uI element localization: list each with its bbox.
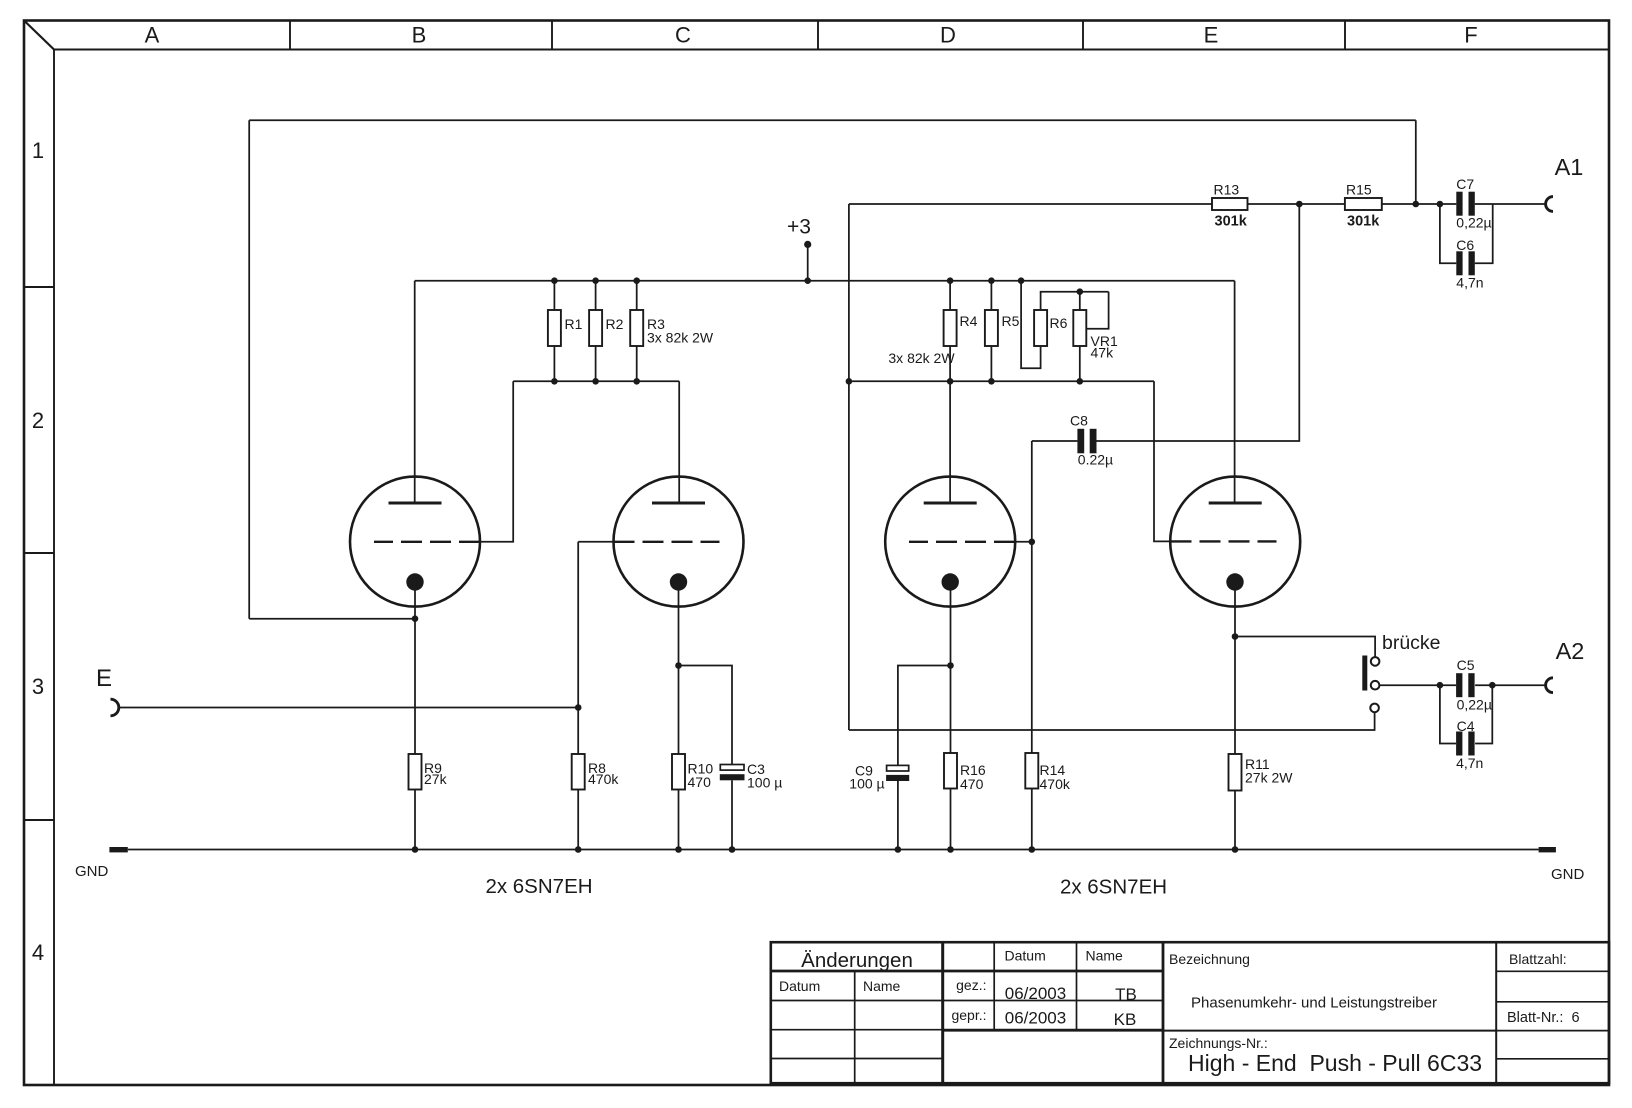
svg-text:Datum: Datum (779, 978, 820, 994)
junction C5 left (1437, 682, 1444, 689)
resistor R1 (548, 310, 561, 346)
wire right coupling rail (849, 380, 1154, 382)
wire R6 top link (1041, 292, 1109, 310)
svg-text:brücke: brücke (1382, 632, 1441, 654)
svg-text:R6: R6 (1050, 315, 1068, 331)
wire R3 leads (636, 281, 638, 382)
junction R6 branch top (1018, 277, 1025, 284)
potentiometer VR1 (1073, 310, 1086, 346)
svg-text:A1: A1 (1555, 154, 1584, 180)
svg-text:27k 2W: 27k 2W (1245, 770, 1293, 786)
junction ground R8 (575, 846, 582, 853)
svg-text:0,22µ: 0,22µ (1457, 697, 1492, 713)
wire VR1 bottom lead (1079, 346, 1081, 381)
svg-text:C5: C5 (1457, 657, 1475, 673)
wire R16 bottom lead (950, 789, 952, 850)
svg-text:100 µ: 100 µ (747, 775, 782, 791)
svg-text:06/2003: 06/2003 (1005, 984, 1066, 1003)
svg-text:High - End Push - Pull 6C33: High - End Push - Pull 6C33 (1188, 1050, 1482, 1076)
terminal E (input) (111, 699, 119, 716)
wire left coupling rail (513, 380, 679, 382)
svg-text:R13: R13 (1214, 182, 1240, 198)
svg-text:R2: R2 (606, 316, 624, 332)
jumper "bruecke" contacts (1370, 657, 1379, 712)
junction ground R9 (412, 846, 419, 853)
wire A1 output line (849, 203, 1546, 205)
junction E input / R8 (575, 704, 582, 711)
svg-text:Blattzahl:: Blattzahl: (1509, 951, 1567, 967)
junction ground R14 (1029, 846, 1036, 853)
wire feedback top horizontal (249, 119, 1416, 121)
svg-text:C6: C6 (1456, 237, 1474, 253)
wire T4 cathode lead (1234, 582, 1236, 754)
resistor R9 (409, 754, 422, 790)
svg-text:100 µ: 100 µ (849, 776, 884, 792)
svg-text:GND: GND (75, 863, 109, 880)
resistor R11 (1229, 754, 1242, 791)
junction C6 tap (1437, 201, 1444, 208)
wire T2 grid node vertical (577, 542, 579, 754)
wire R9 bottom lead (414, 790, 416, 850)
svg-text:301k: 301k (1347, 214, 1380, 230)
svg-text:Bezeichnung: Bezeichnung (1169, 951, 1250, 967)
svg-text:B: B (412, 23, 427, 48)
svg-text:Phasenumkehr- und Leistungstre: Phasenumkehr- und Leistungstreiber (1191, 995, 1437, 1012)
resistor R10 (672, 754, 685, 790)
svg-text:2x 6SN7EH: 2x 6SN7EH (1060, 876, 1167, 899)
junction R2 top (592, 277, 599, 284)
node +3 terminal (804, 241, 811, 248)
svg-text:Name: Name (1086, 948, 1124, 964)
wire C9 bottom lead (897, 781, 899, 850)
junction R1 top (551, 277, 558, 284)
junction T4 cathode (1232, 633, 1239, 640)
svg-text:470k: 470k (588, 771, 619, 787)
resistor R5 (985, 310, 998, 346)
svg-text:C: C (675, 23, 691, 48)
wire D-column riser (848, 204, 850, 730)
capacitor C8 plates (1077, 429, 1084, 454)
wire C5 to A2 terminal (1475, 684, 1545, 686)
svg-text:3x 82k 2W: 3x 82k 2W (888, 350, 955, 366)
svg-text:4,7n: 4,7n (1456, 275, 1483, 291)
svg-text:0.22µ: 0.22µ (1078, 452, 1113, 468)
svg-text:3x 82k 2W: 3x 82k 2W (647, 330, 714, 346)
svg-text:C8: C8 (1070, 413, 1088, 429)
resistor R4 (944, 310, 957, 346)
wire T4 cathode to bridge top contact (1235, 637, 1375, 658)
junction ground R10 (675, 846, 682, 853)
resistor R3 (630, 310, 643, 346)
wire feedback left vertical (248, 120, 250, 619)
capacitor C6 plates (1456, 251, 1462, 275)
junction feedback tap (1413, 201, 1420, 208)
wire T2 grid lead (578, 541, 613, 543)
svg-text:4,7n: 4,7n (1456, 755, 1483, 771)
resistor R16 (944, 753, 957, 789)
resistor R13 (1212, 198, 1248, 210)
svg-text:06/2003: 06/2003 (1005, 1009, 1066, 1028)
wire R6 bottom link (1021, 281, 1041, 369)
wire R11 bottom lead (1234, 791, 1236, 850)
svg-text:470: 470 (960, 776, 984, 792)
wire C3 bottom lead (731, 780, 733, 849)
svg-text:A: A (145, 23, 160, 48)
wire T3 plate lead (949, 381, 951, 503)
svg-text:Name: Name (863, 978, 901, 994)
junction ground C3 (729, 846, 736, 853)
junction T3 cathode (947, 662, 954, 669)
junction ground R11 (1232, 846, 1239, 853)
wire C8 left lead (1032, 440, 1078, 442)
junction R6/VR1 top node (1077, 288, 1084, 295)
wire T1 grid drop (480, 381, 513, 542)
junction +3 rail (804, 277, 811, 284)
wire bridge bottom contact to plate node (849, 712, 1375, 730)
triode V3 (6SN7EH section 1) (885, 477, 1015, 607)
capacitor C7 plates (1456, 192, 1462, 216)
wire R2 leads (595, 281, 597, 382)
junction ground C9 (895, 846, 902, 853)
wire VR1 wiper loop (1087, 292, 1109, 329)
svg-text:F: F (1464, 23, 1477, 48)
wire T3 cathode lead (950, 582, 952, 754)
wire bridge middle contact to C5 (1379, 684, 1456, 686)
svg-text:+3: +3 (787, 216, 811, 239)
jumper "bruecke" bar (1362, 656, 1367, 691)
wire feedback to T1 cathode (249, 618, 415, 620)
junction R4 top (947, 277, 954, 284)
wire R1 leads (553, 281, 555, 382)
svg-text:0,22µ: 0,22µ (1456, 215, 1491, 231)
resistor R15 (1345, 198, 1382, 210)
wire E input line (119, 707, 579, 709)
wire T1 cathode lead (414, 582, 416, 754)
junction R4 bottom (947, 378, 954, 385)
junction R2 bottom (592, 378, 599, 385)
junction C5 right (1489, 682, 1496, 689)
wire R14 bottom lead (1031, 789, 1033, 850)
junction R3 top (633, 277, 640, 284)
junction right rail left end (846, 378, 853, 385)
svg-text:E: E (96, 665, 112, 692)
junction VR1 bottom (1077, 378, 1084, 385)
junction ground R16 (947, 846, 954, 853)
svg-text:TB: TB (1115, 985, 1137, 1004)
junction R5 top (988, 277, 995, 284)
svg-text:301k: 301k (1215, 214, 1248, 230)
resistor R8 (572, 754, 585, 790)
svg-text:470k: 470k (1040, 776, 1071, 792)
wire VR1 top lead (1079, 292, 1081, 310)
wire T3 grid lead (1015, 541, 1032, 543)
svg-text:gez.:: gez.: (956, 977, 986, 993)
wire +3 supply rail (415, 280, 1235, 282)
svg-text:E: E (1204, 23, 1219, 48)
wire +3 terminal lead (807, 244, 809, 280)
wire feedback right vertical to A1 node (1415, 120, 1417, 204)
svg-text:Blatt-Nr.: 6: Blatt-Nr.: 6 (1507, 1010, 1580, 1026)
wire R8 bottom lead (577, 790, 579, 850)
triode V1 (6SN7EH section 1) (350, 477, 480, 607)
svg-text:D: D (940, 23, 956, 48)
junction R3 bottom (633, 378, 640, 385)
wire ground bus (128, 849, 1539, 851)
svg-text:R5: R5 (1002, 313, 1020, 329)
triode V4 (6SN7EH section 2) (1170, 477, 1300, 607)
svg-text:A2: A2 (1556, 638, 1585, 664)
svg-text:GND: GND (1551, 866, 1585, 883)
wire T2 cathode lead (678, 582, 680, 754)
wire T3 grid node vertical (1031, 441, 1033, 754)
svg-text:C7: C7 (1456, 176, 1474, 192)
junction T2 cathode (675, 662, 682, 669)
svg-text:470: 470 (688, 774, 712, 790)
svg-text:1: 1 (32, 138, 44, 163)
svg-text:R1: R1 (565, 316, 583, 332)
wire C8 right lead to A1 node riser (1097, 204, 1300, 441)
wire T2 cathode to C3 (679, 666, 733, 765)
terminal A2 (output) (1546, 678, 1553, 693)
wire T4 grid drop (1154, 381, 1171, 541)
svg-text:Änderungen: Änderungen (801, 949, 913, 972)
resistor R6 (1034, 310, 1047, 346)
electrolytic capacitor C3 (720, 765, 745, 781)
junction T3 grid (1029, 539, 1036, 546)
svg-text:4: 4 (32, 940, 44, 965)
svg-text:KB: KB (1114, 1010, 1137, 1029)
svg-text:C4: C4 (1457, 718, 1475, 734)
capacitor C5 plates (1456, 673, 1462, 697)
svg-text:3: 3 (32, 674, 44, 699)
capacitor C4 plates (1456, 732, 1462, 756)
triode V2 (6SN7EH section 2) (614, 477, 744, 607)
wire R5 leads (990, 281, 992, 382)
wire R4 leads (949, 281, 951, 382)
svg-text:Zeichnungs-Nr.:: Zeichnungs-Nr.: (1169, 1035, 1268, 1051)
resistor R14 (1025, 753, 1038, 789)
svg-text:2: 2 (32, 408, 44, 433)
wire C6 parallel loop (1440, 204, 1493, 263)
svg-text:R15: R15 (1346, 182, 1372, 198)
svg-text:R4: R4 (960, 313, 978, 329)
wire T3 cathode to C9 (898, 666, 951, 766)
svg-text:gepr.:: gepr.: (951, 1007, 986, 1023)
svg-text:47k: 47k (1091, 345, 1115, 361)
junction T1 cathode (412, 615, 419, 622)
wire T1 plate lead (414, 281, 416, 503)
wire T4 plate lead (1234, 281, 1236, 503)
electrolytic capacitor C9 (886, 765, 909, 781)
svg-text:27k: 27k (424, 771, 448, 787)
junction R1 bottom (551, 378, 558, 385)
wire R10 bottom lead (678, 790, 680, 850)
junction A1 node left (1296, 201, 1303, 208)
svg-text:Datum: Datum (1005, 948, 1046, 964)
junction R5 bottom (988, 378, 995, 385)
resistor R2 (589, 310, 602, 346)
wire T2 plate lead (678, 381, 680, 503)
ground bar right (1539, 847, 1556, 852)
svg-text:2x 6SN7EH: 2x 6SN7EH (485, 875, 592, 898)
ground bar left (109, 847, 127, 852)
terminal A1 (output) (1546, 197, 1553, 212)
wire C4 parallel loop (1440, 685, 1492, 743)
